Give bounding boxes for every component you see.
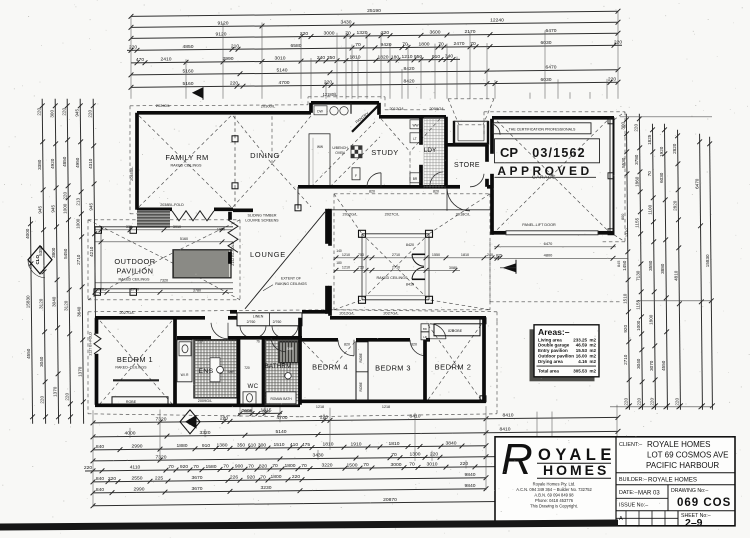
right dimension column 6 (700, 134, 703, 410)
svg-text:220: 220 (230, 80, 238, 86)
svg-text:4310: 4310 (88, 158, 93, 169)
svg-text:610: 610 (248, 442, 256, 448)
svg-text:1210: 1210 (342, 265, 350, 269)
svg-text:1370: 1370 (77, 366, 82, 377)
svg-text:70: 70 (248, 463, 254, 469)
bedroom wing bottom wall left (95, 403, 300, 407)
svg-text:W.I.R: W.I.R (181, 373, 189, 377)
svg-text:2550: 2550 (132, 476, 143, 482)
ens top wall (177, 336, 211, 340)
svg-text:3580: 3580 (648, 260, 653, 271)
svg-text:830: 830 (98, 287, 104, 291)
svg-text:1218: 1218 (316, 405, 324, 409)
bottom dim row 7320 220 4700 220 8410 (93, 417, 618, 423)
svg-text:6580: 6580 (291, 43, 302, 49)
front porch wall stubs (487, 185, 492, 189)
courtyard wall stubs (328, 209, 332, 246)
lounge north stub (233, 208, 253, 212)
svg-text:3070: 3070 (649, 360, 654, 371)
svg-text:OVEN: OVEN (335, 151, 345, 155)
svg-text:470: 470 (136, 57, 144, 63)
fridge (352, 168, 360, 180)
svg-text:8420: 8420 (406, 243, 414, 247)
svg-text:180: 180 (391, 54, 399, 60)
svg-text:4110: 4110 (130, 465, 141, 471)
svg-text:820: 820 (433, 189, 439, 193)
svg-text:20870: 20870 (383, 497, 397, 503)
svg-text:240: 240 (317, 55, 325, 61)
svg-text:12180/L: 12180/L (323, 92, 339, 97)
ens tiled floor (194, 340, 237, 398)
svg-text:4920: 4920 (50, 158, 55, 169)
svg-text:1000: 1000 (636, 320, 641, 331)
garage left wall (490, 119, 494, 154)
svg-text:1100: 1100 (648, 204, 653, 214)
svg-text:220: 220 (637, 398, 642, 406)
bottom dim row 840 2990 3670 3230 9840 (93, 489, 486, 493)
svg-text:340: 340 (445, 54, 453, 60)
svg-text:F: F (355, 174, 357, 178)
svg-text:Living area: Living area (538, 337, 562, 342)
svg-text:220: 220 (381, 30, 389, 36)
svg-text:220: 220 (650, 398, 655, 406)
bedroom1 left wall with bifold (95, 318, 99, 334)
svg-text:3040: 3040 (636, 358, 641, 369)
svg-text:LINEN: LINEN (253, 314, 264, 318)
dining ceiling lines (233, 164, 272, 207)
svg-text:2012G/L: 2012G/L (339, 310, 355, 315)
svg-text:2710: 2710 (392, 253, 400, 257)
svg-text:Areas:–: Areas:– (538, 327, 570, 337)
svg-text:THE CERTIFICATION PROFESSIONAL: THE CERTIFICATION PROFESSIONALS (509, 127, 576, 131)
ldy appliances WW LT BR (410, 120, 421, 129)
svg-text:8410: 8410 (406, 282, 414, 286)
bathrm tiled floor (265, 340, 299, 405)
svg-text:m2: m2 (589, 354, 596, 359)
svg-text:220: 220 (675, 398, 680, 406)
svg-text:STUDY: STUDY (371, 148, 398, 157)
garage south dim row 6470 (494, 246, 616, 248)
hall door arc to bedroom1 (211, 323, 228, 339)
svg-text:820: 820 (411, 342, 417, 346)
svg-text:1550: 1550 (432, 253, 440, 257)
bedroom2 robe (434, 324, 480, 336)
svg-text:1510: 1510 (622, 293, 627, 304)
svg-text:3800: 3800 (51, 247, 56, 258)
svg-text:7130: 7130 (635, 270, 640, 281)
outdoor pavilion roof hips (88, 220, 163, 258)
svg-text:410: 410 (290, 442, 298, 448)
robe column bedrm4-3 (356, 342, 368, 401)
svg-text:2990: 2990 (134, 487, 145, 493)
bedrm3-2 wall (423, 340, 427, 402)
svg-text:5140: 5140 (276, 429, 287, 435)
svg-text:220: 220 (624, 398, 629, 406)
svg-text:2018C/L: 2018C/L (456, 212, 472, 217)
svg-text:U/BENCH: U/BENCH (332, 146, 348, 150)
svg-text:2710: 2710 (76, 254, 81, 265)
svg-text:70: 70 (260, 474, 266, 480)
svg-text:2127 BI–FOLD: 2127 BI–FOLD (89, 332, 93, 356)
kitchen bench DW and sink (314, 106, 327, 115)
svg-text:1450: 1450 (622, 260, 627, 271)
svg-text:3780: 3780 (193, 288, 201, 292)
svg-text:8410: 8410 (503, 413, 514, 419)
svg-text:20300/L: 20300/L (261, 103, 276, 108)
svg-text:EXTENT OF: EXTENT OF (281, 276, 302, 280)
bottom dims short row 0606 1815 (238, 412, 282, 414)
left reference diamond (28, 246, 52, 274)
entry porch roof dashes (448, 99, 459, 125)
deck hatch (173, 250, 231, 278)
svg-text:1000: 1000 (63, 203, 68, 214)
kitchen island bench (309, 134, 330, 188)
svg-text:1825: 1825 (647, 134, 652, 145)
top dimension row 25190 (131, 11, 618, 16)
svg-text:ENS: ENS (199, 368, 214, 375)
svg-text:4850: 4850 (183, 44, 194, 50)
svg-text:233.25: 233.25 (573, 337, 587, 342)
bedroom4 door arc (338, 340, 354, 356)
svg-text:840: 840 (96, 476, 104, 482)
svg-text:m2: m2 (589, 369, 596, 374)
driveway dashes below garage (489, 242, 491, 302)
svg-text:1600: 1600 (217, 227, 225, 231)
svg-text:15830: 15830 (705, 254, 710, 267)
svg-text:4850: 4850 (62, 156, 67, 167)
svg-text:220: 220 (37, 108, 42, 116)
svg-text:220: 220 (108, 476, 116, 482)
svg-text:70: 70 (223, 464, 229, 470)
right dimension column 2 (639, 114, 642, 410)
svg-text:LDY: LDY (424, 147, 437, 154)
ldy door arc (430, 172, 443, 187)
svg-text:BD: BD (423, 327, 427, 331)
svg-text:PAVILION: PAVILION (117, 266, 154, 275)
linen closet (237, 313, 302, 326)
lounge left wall bifold (228, 212, 232, 220)
svg-text:220: 220 (634, 124, 639, 132)
svg-text:2027G/L: 2027G/L (119, 310, 135, 315)
entry pavilion door arcs (412, 253, 425, 255)
roman bath (266, 392, 296, 404)
left dimension column 2 (42, 99, 45, 424)
svg-text:180: 180 (336, 261, 342, 265)
svg-text:1510: 1510 (274, 442, 285, 448)
svg-text:845: 845 (616, 261, 621, 268)
svg-text:7320: 7320 (160, 278, 168, 282)
svg-text:70: 70 (301, 463, 307, 469)
svg-text:1910: 1910 (351, 441, 362, 447)
svg-text:Total area: Total area (538, 369, 559, 374)
roof outline dashes upper block (130, 105, 308, 106)
bedroom wing top wall right (330, 316, 486, 320)
bedroom4 ceiling dashes (303, 342, 330, 370)
svg-text:220: 220 (608, 77, 616, 83)
svg-text:945: 945 (75, 109, 80, 117)
svg-text:70: 70 (402, 42, 408, 48)
stamp APPROVED (495, 176, 597, 178)
svg-text:3220: 3220 (322, 463, 333, 469)
bottom dim row 20870 (93, 500, 618, 506)
svg-text:1810: 1810 (350, 55, 361, 61)
svg-text:6470: 6470 (546, 28, 557, 34)
svg-text:305.53: 305.53 (573, 369, 587, 374)
bedroom1 robe (112, 397, 168, 405)
svg-text:945: 945 (89, 203, 94, 211)
svg-text:ISSUE No:–: ISSUE No:– (619, 502, 648, 508)
svg-text:RAKING CEILINGS: RAKING CEILINGS (275, 282, 307, 286)
svg-text:720: 720 (197, 339, 203, 343)
svg-text:1920: 1920 (659, 146, 664, 157)
garage ceiling X (497, 121, 607, 230)
svg-text:220: 220 (430, 451, 438, 457)
drying court dark hatch (137, 210, 170, 228)
svg-text:RAKED CEILINGS: RAKED CEILINGS (377, 276, 408, 280)
svg-text:1218: 1218 (382, 405, 390, 409)
svg-text:SLIDING TIMBER: SLIDING TIMBER (248, 213, 277, 217)
svg-text:03/1562: 03/1562 (532, 146, 586, 160)
svg-text:70: 70 (272, 463, 278, 469)
svg-text:DATE:–: DATE:– (619, 490, 637, 496)
svg-text:1880: 1880 (177, 443, 188, 449)
svg-text:9120: 9120 (216, 32, 227, 38)
svg-text:16.00: 16.00 (576, 354, 588, 359)
svg-text:1800: 1800 (271, 474, 282, 480)
svg-text:2009G/L: 2009G/L (429, 106, 445, 111)
svg-text:2990: 2990 (223, 56, 234, 62)
svg-text:3380: 3380 (37, 159, 42, 170)
top extension lines (130, 16, 132, 98)
svg-text:140: 140 (336, 249, 342, 253)
svg-text:6470: 6470 (544, 241, 553, 246)
svg-text:OUTDOOR: OUTDOOR (114, 257, 155, 266)
svg-text:70: 70 (470, 41, 476, 47)
svg-text:70: 70 (409, 462, 415, 468)
svg-text:WW: WW (317, 145, 323, 149)
svg-text:CLIENT:–: CLIENT:– (619, 442, 642, 448)
family-dining divider (234, 116, 236, 207)
svg-text:8420: 8420 (404, 66, 415, 72)
svg-text:2027C/L: 2027C/L (385, 212, 401, 217)
svg-text:6470: 6470 (546, 65, 557, 71)
svg-text:220: 220 (460, 461, 468, 467)
lounge right wall (325, 209, 329, 244)
svg-text:Outdoor pavilion: Outdoor pavilion (538, 354, 574, 359)
svg-text:LOUVRE SCREENS: LOUVRE SCREENS (245, 218, 279, 222)
svg-text:2710: 2710 (392, 265, 400, 269)
bottom reference diamond A-CO (180, 410, 200, 434)
bathrm shower dark (279, 342, 299, 363)
svg-text:m2: m2 (589, 343, 596, 348)
svg-text:76: 76 (256, 339, 260, 343)
svg-text:PANEL-LIFT DOOR: PANEL-LIFT DOOR (522, 223, 556, 227)
left dimension column 5 (80, 99, 83, 424)
svg-text:220: 220 (40, 396, 45, 404)
svg-text:SHR: SHR (227, 370, 235, 374)
svg-text:3840: 3840 (446, 440, 457, 446)
svg-text:910: 910 (202, 443, 210, 449)
svg-text:3010: 3010 (427, 462, 438, 468)
svg-text:220: 220 (292, 474, 300, 480)
svg-text:1810: 1810 (389, 441, 400, 447)
svg-text:6470: 6470 (694, 178, 699, 189)
svg-text:920: 920 (180, 464, 188, 470)
svg-text:BUILDER:–: BUILDER:– (619, 477, 647, 483)
svg-text:220: 220 (84, 465, 92, 471)
bedroom1 right wall (173, 318, 177, 405)
svg-text:3080: 3080 (449, 266, 457, 270)
svg-text:CLO: CLO (35, 255, 40, 265)
svg-text:DW: DW (317, 109, 323, 113)
svg-text:8410: 8410 (500, 427, 511, 433)
svg-text:2/760: 2/760 (273, 320, 282, 324)
svg-text:70: 70 (168, 464, 174, 470)
svg-text:1810: 1810 (461, 253, 469, 257)
bottom dim row 840 2550 3670 ... (93, 478, 486, 482)
svg-text:2470: 2470 (454, 41, 465, 47)
kitchen nook walls (309, 103, 313, 113)
svg-text:70: 70 (363, 462, 369, 468)
outdoor pavilion structure (95, 226, 233, 228)
svg-text:750: 750 (358, 265, 364, 269)
svg-text:800: 800 (620, 213, 625, 220)
svg-text:0606: 0606 (244, 409, 252, 413)
left dimension column 1 (30, 217, 32, 424)
top dimension row 470 2410 2990 3010 ... (131, 59, 460, 62)
svg-text:4550: 4550 (26, 348, 31, 359)
svg-text:6030: 6030 (541, 40, 552, 46)
svg-text:1210: 1210 (402, 54, 413, 60)
bottom dim row 2990 1880 910 ... (93, 446, 486, 450)
svg-text:069 COS: 069 COS (677, 497, 731, 509)
svg-text:FAMILY RM: FAMILY RM (165, 153, 208, 162)
svg-text:2/760: 2/760 (247, 320, 256, 324)
svg-text:2990: 2990 (132, 444, 143, 450)
svg-text:A: A (619, 516, 623, 522)
garage right wall (609, 118, 611, 235)
driveway dim row 4800 (494, 257, 628, 259)
store door arc (470, 174, 484, 187)
svg-text:20240/L: 20240/L (156, 103, 171, 108)
svg-text:3000: 3000 (324, 30, 335, 36)
svg-text:70: 70 (193, 464, 199, 470)
svg-text:350: 350 (237, 443, 245, 449)
svg-text:Royale Homes Pty. Ltd.: Royale Homes Pty. Ltd. (533, 481, 576, 486)
svg-text:4700: 4700 (279, 80, 290, 86)
top dimension row 5160 220 4700 220 8420 6030 220 (131, 82, 618, 87)
svg-text:BEDRM 4: BEDRM 4 (312, 362, 348, 371)
svg-text:2009G/L: 2009G/L (198, 399, 213, 403)
svg-text:ROBE: ROBE (452, 329, 463, 333)
svg-text:This Drawing is Copyright.: This Drawing is Copyright. (530, 504, 578, 509)
svg-text:ROBE: ROBE (359, 352, 363, 362)
svg-text:240: 240 (487, 253, 493, 257)
svg-text:220: 220 (62, 192, 67, 200)
right dimension column 5 (678, 130, 681, 410)
certification stamp box (493, 123, 591, 134)
bottom extension lines (92, 410, 94, 507)
svg-text:1320: 1320 (357, 30, 368, 36)
bedroom3 door arc (410, 340, 426, 356)
courtyard flag marker (504, 264, 516, 272)
wc-bathrm wall (262, 338, 266, 405)
svg-text:5160: 5160 (183, 68, 194, 74)
bedroom wing right wall (482, 318, 486, 402)
svg-text:m2: m2 (589, 337, 596, 342)
outdoor pavilion dims top (95, 229, 233, 231)
svg-text:2410: 2410 (161, 57, 172, 63)
right dimension column 3 (652, 124, 655, 410)
svg-text:3000: 3000 (391, 462, 402, 468)
svg-text:220: 220 (88, 110, 93, 118)
svg-text:2820: 2820 (673, 200, 678, 211)
svg-text:6030: 6030 (541, 77, 552, 83)
bedroom1 bed bar (113, 379, 159, 381)
svg-text:7320: 7320 (156, 416, 167, 422)
left dimension column 4 (67, 99, 70, 424)
svg-text:4000: 4000 (25, 228, 30, 239)
bathrm-bedrm4 wall (298, 318, 302, 405)
svg-text:3120: 3120 (39, 298, 44, 309)
courtyard north eave line and labels (331, 209, 490, 211)
svg-text:ROYALE HOMES: ROYALE HOMES (648, 476, 697, 483)
svg-text:3880: 3880 (660, 263, 665, 274)
svg-text:910: 910 (432, 54, 440, 60)
svg-text:WW: WW (412, 123, 418, 127)
svg-text:9840: 9840 (465, 472, 476, 478)
svg-text:220: 220 (129, 45, 137, 51)
svg-text:BEDRM 1: BEDRM 1 (117, 355, 153, 364)
svg-text:945: 945 (51, 205, 56, 213)
svg-text:3010: 3010 (275, 56, 286, 62)
svg-text:ROYALE HOMES: ROYALE HOMES (647, 440, 710, 449)
svg-text:4.16: 4.16 (578, 359, 587, 364)
right extension lines (620, 116, 712, 118)
svg-text:920: 920 (247, 474, 255, 480)
svg-text:840: 840 (96, 487, 104, 493)
svg-text:m2: m2 (589, 359, 596, 364)
svg-text:SHR: SHR (287, 347, 294, 351)
svg-text:1800: 1800 (285, 463, 296, 469)
family bottom wall (137, 207, 172, 211)
left dimension column 3 (55, 99, 58, 424)
svg-text:ROMAN BATH: ROMAN BATH (270, 397, 292, 401)
top dimension row 220 4850 210 ... (127, 45, 622, 50)
store walls (444, 117, 448, 187)
svg-text:2710: 2710 (131, 287, 139, 291)
svg-text:2012G/L: 2012G/L (389, 106, 405, 111)
svg-text:15.53: 15.53 (576, 348, 588, 353)
svg-text:5450: 5450 (63, 248, 68, 259)
svg-text:12240: 12240 (490, 18, 504, 24)
scan bottom black bar (0, 520, 618, 531)
right dimension column 7 (710, 137, 713, 410)
svg-text:1155: 1155 (635, 217, 640, 227)
svg-text:A.B.N. 69 094 849 98: A.B.N. 69 094 849 98 (534, 493, 574, 498)
lounge raking ceiling diagonal (245, 212, 325, 309)
svg-text:1815: 1815 (262, 409, 270, 413)
svg-text:LOUNGE: LOUNGE (250, 250, 286, 259)
bedroom2 ceiling X (428, 325, 481, 400)
stamp CP 03/1562 (495, 139, 600, 163)
bedroom1 ceiling X (100, 321, 172, 404)
ldy floor tiles (423, 118, 425, 188)
roof dashes garage (484, 111, 625, 113)
svg-text:920: 920 (623, 325, 628, 333)
svg-text:BATHRM: BATHRM (265, 363, 292, 370)
garage top wall (492, 116, 614, 120)
